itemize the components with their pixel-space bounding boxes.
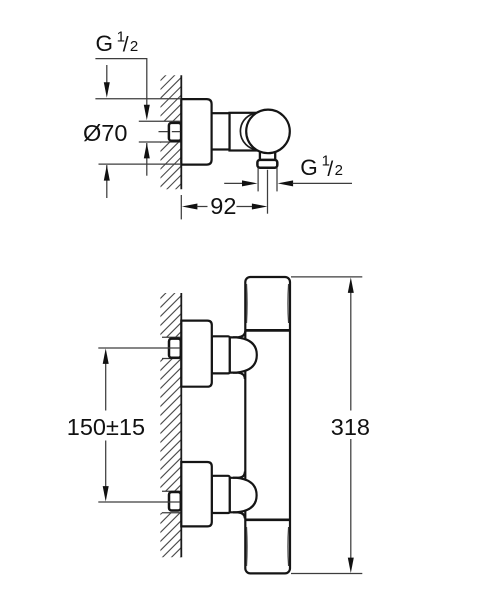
wall flange / escutcheon (side view) <box>181 99 211 165</box>
dim arrow inlet thread bottom <box>146 143 148 176</box>
knob rear flange arc <box>240 113 277 150</box>
svg-text:Ø70: Ø70 <box>83 120 127 146</box>
extension line flange bottom <box>99 163 182 165</box>
upper inlet centre line / extension <box>98 347 181 349</box>
lower S-union bell <box>230 478 257 513</box>
leader line from G1/2 label <box>95 59 146 106</box>
dimension 92 <box>181 195 267 219</box>
svg-text:2: 2 <box>130 38 138 55</box>
lower bell top hook <box>233 472 245 478</box>
valve body (rear section, side view) <box>230 113 259 151</box>
wall surface line (top view) <box>180 75 182 189</box>
extension line flange top <box>95 98 181 100</box>
upper union nut <box>212 336 230 373</box>
body shading arcs top cap <box>247 284 289 566</box>
svg-text:/: / <box>327 158 333 181</box>
svg-text:G: G <box>96 31 114 56</box>
lower union nut <box>212 476 230 513</box>
lower escutcheon <box>181 462 212 526</box>
upper supply fitting <box>169 339 181 358</box>
svg-text:2: 2 <box>335 162 343 179</box>
connector neck between flange and body <box>211 113 230 149</box>
label G 1/2 (outlet thread) <box>300 153 343 181</box>
wall surface line (front view) <box>180 293 182 557</box>
upper body divider line <box>245 329 290 332</box>
318 extension line bottom <box>291 573 362 575</box>
dim arrow inlet thread top <box>144 105 150 121</box>
dimension 318 <box>348 277 354 573</box>
outlet centre line <box>267 170 269 214</box>
upper bell top hook <box>233 331 245 337</box>
dim arrow flange bottom <box>106 165 108 198</box>
upper S-union bell <box>230 337 257 372</box>
dim arrow flange top <box>106 65 108 84</box>
svg-text:G: G <box>300 155 318 180</box>
svg-text:92: 92 <box>210 193 236 219</box>
lower body divider line <box>245 518 290 521</box>
wall hatching (front view) <box>158 276 183 580</box>
outlet neck under knob <box>259 149 276 162</box>
lower bell bottom hook <box>233 512 245 518</box>
outlet pipe walls <box>258 168 277 192</box>
dimension G 1/2 at outlet <box>224 180 352 186</box>
thermostat body (vertical cylinder) <box>245 277 290 573</box>
lower supply pipe stub <box>158 491 181 513</box>
wall hatching (top view) <box>159 58 184 207</box>
supply fitting (wall union nipple) <box>169 123 181 141</box>
outlet collar nut <box>257 160 277 168</box>
svg-text:150±15: 150±15 <box>67 414 145 440</box>
svg-text:/: / <box>123 34 129 57</box>
dimension 150±15 <box>103 348 109 501</box>
upper supply pipe stub <box>158 337 181 358</box>
lower inlet centre line / extension <box>98 501 181 503</box>
svg-text:318: 318 <box>331 414 370 440</box>
dashed centre line of supply pipe <box>159 131 182 133</box>
lower supply fitting <box>169 492 181 511</box>
318 extension line top <box>291 276 362 278</box>
upper escutcheon <box>181 321 212 387</box>
upper bell bottom hook <box>233 373 245 379</box>
control knob (large circle) <box>246 110 290 154</box>
supply pipe behind wall <box>139 121 182 142</box>
label G 1/2 (top-left, inlet thread) <box>96 28 139 56</box>
